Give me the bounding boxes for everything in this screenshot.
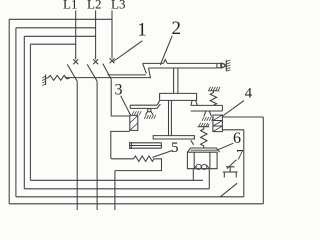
shunt release coil box 4 bbox=[213, 115, 223, 132]
wire tap h1 from L3 to left loop bbox=[9, 18, 112, 20]
wall anchor for contact spring bbox=[45, 74, 47, 85]
wire right outer vertical bbox=[262, 117, 264, 204]
button 7 blade bbox=[220, 183, 237, 197]
svg-text:1: 1 bbox=[137, 20, 147, 41]
wire L1 supply vertical bbox=[75, 11, 77, 60]
wire bottom outer horizontal bbox=[9, 203, 263, 205]
wire L3 supply vertical bbox=[111, 11, 113, 59]
wire pole 3 exit vertical bbox=[114, 171, 116, 210]
svg-text:4: 4 bbox=[245, 85, 253, 101]
callout line 2 bbox=[160, 36, 172, 65]
wire left loop third vertical bbox=[23, 36, 25, 189]
contact bridge spring bbox=[46, 75, 70, 80]
svg-text:5: 5 bbox=[171, 140, 179, 156]
callout line 4 bbox=[223, 101, 244, 116]
svg-text:L2: L2 bbox=[87, 0, 101, 11]
fixed contact cross pole 2 bbox=[93, 59, 98, 64]
svg-text:L3: L3 bbox=[111, 0, 125, 11]
latch pivot ground hatch bbox=[144, 115, 156, 119]
mid crossbar of mechanism bbox=[160, 93, 197, 100]
wire tap h4 from L1 to left loop bbox=[30, 43, 75, 45]
button 7 bridge bar bbox=[223, 171, 238, 173]
svg-text:7: 7 bbox=[236, 148, 244, 164]
moving contact blade pole 1 bbox=[67, 64, 77, 81]
fixed contact cross pole 1 bbox=[73, 59, 78, 64]
callout line 1 bbox=[113, 41, 143, 62]
crossbar right pivot triangle bbox=[191, 100, 198, 105]
callout line 6 bbox=[217, 143, 234, 150]
latch lever link diagonals bbox=[157, 101, 160, 109]
release 4 spring bbox=[210, 91, 216, 106]
wire bottom second horizontal bbox=[16, 196, 244, 198]
wire shunt coil top lead bbox=[222, 116, 263, 118]
lower link vertical (double line) bbox=[169, 100, 172, 135]
undervoltage release 6 body bbox=[187, 152, 217, 169]
wire pole 2 load vertical bbox=[96, 81, 98, 210]
pivot wall bbox=[225, 60, 227, 71]
wire release 6 right lead bbox=[208, 169, 210, 189]
wire right inner vertical bbox=[243, 130, 245, 197]
wire bottom inner horizontal bbox=[30, 179, 203, 181]
latch pivot legs bbox=[146, 111, 153, 115]
button 7 contact ticks bbox=[224, 172, 236, 178]
callout line 5 bbox=[152, 151, 172, 158]
trip bar foot (T) bbox=[153, 136, 194, 139]
moving contact blade pole 3 bbox=[103, 64, 111, 80]
latch hook engagement diagonals bbox=[143, 63, 151, 78]
thermal bimetal strip bbox=[130, 142, 162, 149]
lever pivot bbox=[221, 64, 225, 68]
wire pole 1 load vertical bbox=[76, 81, 78, 210]
wire tap h3 from L2 to left loop bbox=[24, 35, 95, 37]
armature lever bar (release 4) bbox=[191, 105, 223, 111]
spring anchor hatch above release 4 bbox=[208, 90, 219, 92]
fixed contact cross pole 3 bbox=[110, 58, 115, 63]
armature pivot ground hatch bbox=[202, 117, 214, 121]
wire left loop inner vertical bbox=[29, 44, 31, 180]
callout line 3 bbox=[121, 96, 131, 116]
svg-text:6: 6 bbox=[233, 130, 241, 147]
wire pole 3 into coil 3 bbox=[111, 79, 130, 116]
callout line 7 bbox=[227, 160, 236, 169]
heater zigzag bbox=[134, 156, 156, 161]
wire coil 3 out to heater bbox=[111, 131, 134, 158]
latch notch on lever bbox=[163, 60, 167, 64]
latch lever bar bbox=[130, 105, 157, 108]
button 7 handle bbox=[226, 167, 235, 172]
wire left loop second vertical bbox=[15, 28, 17, 197]
foot to armature tick bbox=[191, 140, 194, 145]
trip lever top bar bbox=[143, 63, 217, 68]
wire heater to pole 3 exit bbox=[115, 159, 162, 171]
release 6 coil loops bbox=[196, 164, 201, 169]
contact bridge bar bbox=[65, 77, 151, 79]
wire L2 supply vertical bbox=[95, 11, 97, 60]
upper link vertical (double line) bbox=[174, 68, 178, 94]
svg-text:3: 3 bbox=[115, 81, 123, 98]
release 6 core line bbox=[194, 152, 210, 169]
wire bottom third horizontal bbox=[24, 188, 209, 190]
release 6 spring bbox=[201, 127, 207, 148]
lever end block bbox=[217, 63, 221, 67]
release 3 armature hatch bbox=[132, 111, 141, 115]
armature bar pivot bbox=[204, 111, 212, 116]
contact bridge bar upper line bbox=[108, 74, 146, 76]
moving contact blade pole 2 bbox=[87, 64, 97, 81]
overcurrent release coil box 3 bbox=[130, 115, 138, 130]
latch lever pivot circle bbox=[148, 109, 151, 112]
svg-text:L1: L1 bbox=[63, 0, 77, 11]
release 6 spring anchor bbox=[198, 126, 210, 128]
wire tap h2 from L2 to left loop bbox=[16, 27, 96, 29]
svg-text:2: 2 bbox=[172, 18, 182, 39]
wire left loop outer vertical bbox=[8, 19, 10, 204]
solenoid 6 armature plate bbox=[187, 148, 219, 152]
wire shunt coil bottom lead bbox=[222, 129, 243, 131]
wire release 6 left lead bbox=[192, 169, 194, 181]
